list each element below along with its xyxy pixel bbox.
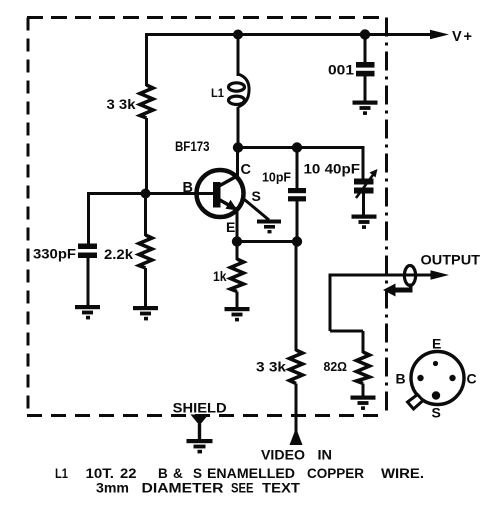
svg-text:E: E (226, 219, 235, 235)
wire 10pF bottom down to 3.3k lower (295, 242, 298, 352)
svg-text:22: 22 (120, 466, 137, 481)
svg-text:10T.: 10T. (86, 466, 115, 481)
svg-text:3 3k: 3 3k (107, 97, 137, 112)
wire collector rail (238, 146, 365, 149)
pin E dot (433, 361, 438, 366)
pin B dot (417, 375, 423, 381)
svg-text:001: 001 (328, 63, 355, 78)
output arrow (431, 270, 450, 279)
ground under 82ohm (351, 396, 376, 410)
V+ arrow (430, 30, 449, 39)
wire V+ rail (145, 33, 434, 36)
wire 330pF to ground (87, 258, 90, 306)
wire video in lead (295, 384, 298, 435)
svg-text:330pF: 330pF (33, 247, 76, 262)
shield arrow (191, 415, 209, 426)
ground under 330pF (75, 305, 100, 319)
wire base node to transistor base (87, 192, 214, 195)
wire 001 to ground (364, 76, 367, 101)
wire emitter down (236, 211, 239, 241)
svg-text:82Ω: 82Ω (324, 359, 348, 374)
node V+ rail / 001 junction (360, 29, 370, 39)
ground under 1k (225, 307, 250, 321)
node emitter / 10pF bottom junction (292, 236, 302, 246)
wire output branch to 82ohm (330, 330, 363, 333)
resistor R 3.3k (lower) (290, 350, 303, 384)
ground S electrode (257, 220, 281, 234)
label VIDEO IN (261, 447, 332, 463)
wire top rail to R1 corner (145, 33, 148, 86)
svg-text:&: & (173, 466, 183, 481)
svg-text:IN: IN (318, 447, 333, 463)
pin S dot (432, 391, 440, 399)
wire 10pF bottom lead (296, 201, 299, 241)
svg-text:S: S (432, 405, 441, 421)
svg-text:B: B (158, 466, 168, 481)
pin C dot (449, 375, 455, 381)
svg-text:L1: L1 (211, 86, 224, 100)
svg-text:3 3k: 3 3k (256, 360, 287, 375)
ground under trimmer (352, 215, 377, 229)
wire S electrode to ground (242, 198, 269, 221)
resistor R 2.2k (139, 235, 152, 268)
wire shield to ground (198, 424, 201, 440)
wire 82ohm to ground (362, 384, 365, 397)
svg-text:OUTPUT: OUTPUT (421, 252, 481, 268)
ground under 001 (353, 101, 378, 115)
svg-text:SEE: SEE (231, 481, 254, 496)
node collector junction (233, 142, 243, 152)
svg-text:COPPER: COPPER (307, 466, 364, 481)
svg-text:V +: V + (452, 29, 472, 45)
svg-text:DIAMETER: DIAMETER (142, 481, 224, 496)
svg-text:2.2k: 2.2k (104, 247, 134, 262)
wire 82ohm top lead (362, 331, 365, 353)
svg-text:L1: L1 (55, 466, 68, 481)
wire emitter rail (237, 240, 297, 243)
svg-text:B: B (183, 180, 193, 196)
trimmer capacitor 10-40pF (354, 169, 378, 198)
pin-view key tab (408, 395, 424, 410)
transistor pin-view circle (411, 352, 464, 405)
svg-text:C: C (467, 371, 477, 387)
capacitor 10pF (288, 188, 306, 201)
svg-text:ENAMELLED: ENAMELLED (207, 466, 295, 481)
resistor R 3.3k (upper) (140, 85, 153, 118)
transistor Q1 BF173 (197, 170, 244, 217)
svg-text:E: E (432, 336, 441, 352)
node collector / 10pF junction (292, 142, 302, 152)
caption line 1 (86, 466, 425, 481)
svg-text:10 40pF: 10 40pF (304, 162, 361, 177)
wire 10pF top lead (296, 148, 299, 190)
svg-text:3mm: 3mm (96, 481, 129, 496)
wire collector up (236, 147, 239, 177)
svg-text:S: S (193, 466, 202, 481)
inductor L1 (229, 74, 250, 107)
caption line 2 (96, 481, 301, 496)
node base junction (141, 189, 151, 199)
svg-text:S: S (252, 188, 261, 204)
wire output branch vertical (329, 274, 332, 332)
svg-text:1k: 1k (213, 269, 227, 284)
capacitor 330pF (78, 244, 97, 259)
wire base node down-left to C 330pF (87, 192, 90, 244)
resistor R 82ohm (357, 352, 370, 384)
output plug tip (383, 284, 413, 297)
wire 2.2k to ground (144, 268, 147, 307)
capacitor 001 (356, 62, 375, 76)
wire 001 top lead (364, 35, 367, 64)
video in arrow (290, 428, 303, 445)
svg-text:C: C (241, 162, 252, 178)
svg-text:BF173: BF173 (175, 138, 210, 154)
svg-text:WIRE.: WIRE. (381, 466, 424, 481)
wire trimmer to ground (362, 193, 365, 215)
svg-text:SHIELD: SHIELD (173, 400, 227, 416)
wire 1k top lead (236, 242, 239, 261)
wire trimmer top lead (362, 146, 365, 179)
wire 1k to ground (236, 292, 239, 309)
output plug ring (404, 266, 415, 286)
wire L1 top lead (237, 35, 240, 77)
svg-text:B: B (396, 371, 406, 387)
wire base node to R 2.2k (144, 194, 147, 237)
svg-text:VIDEO: VIDEO (261, 447, 305, 463)
svg-text:10pF: 10pF (262, 171, 291, 185)
shield enclosure dashed box (27, 18, 387, 416)
resistor R 1k (231, 259, 244, 292)
wire output branch horizontal (330, 274, 434, 277)
ground shield (187, 439, 213, 453)
wire L1 bottom lead (237, 107, 240, 147)
node emitter junction (232, 236, 242, 246)
wire R1 bottom to base node (145, 118, 148, 193)
svg-text:TEXT: TEXT (262, 481, 301, 496)
node V+ rail / L1 junction (233, 30, 243, 40)
ground under 2.2k (133, 306, 158, 320)
